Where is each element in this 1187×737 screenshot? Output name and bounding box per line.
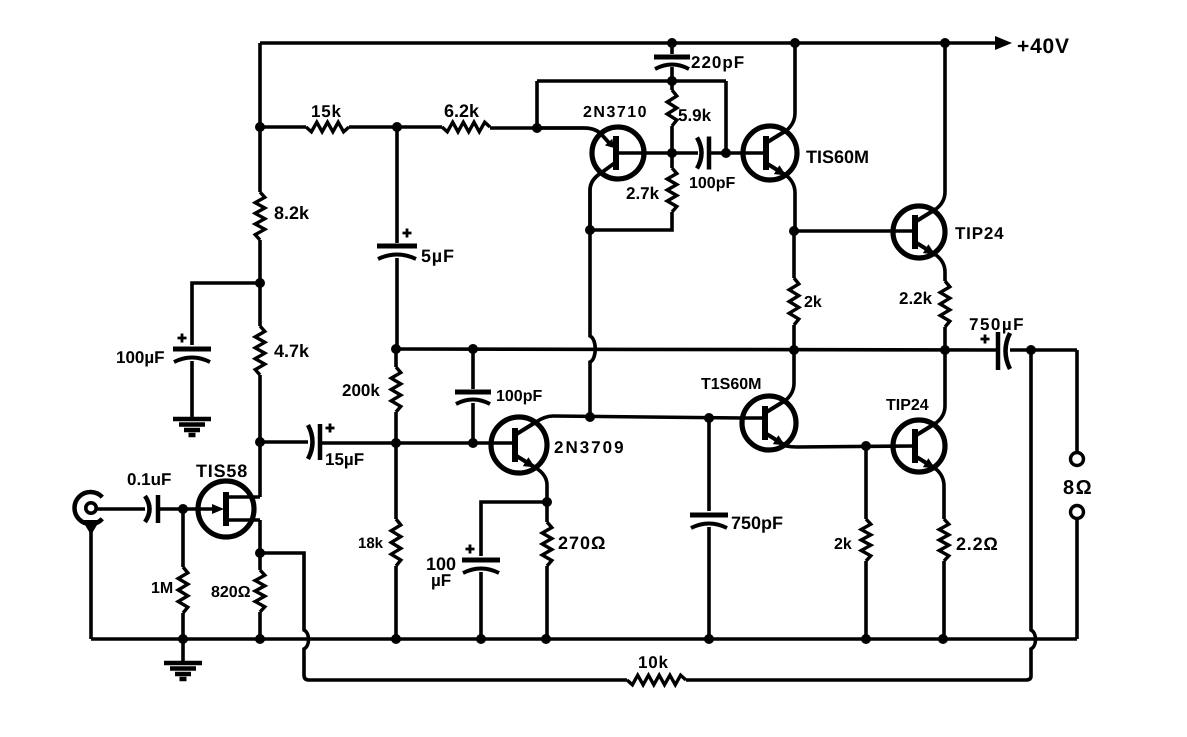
wire 270 bottom <box>545 566 549 639</box>
wire +40V top supply rail <box>260 41 1000 45</box>
resistor 18k <box>391 519 401 566</box>
resistor 4.7k <box>255 326 265 375</box>
wire ground rail <box>91 637 1077 641</box>
wire 100pF mid top <box>471 349 475 389</box>
wire TIS60M bottom base <box>742 416 765 420</box>
svg-text:750µF: 750µF <box>969 315 1025 334</box>
node 2.2ohm/ground rail <box>938 634 948 644</box>
wire TIP24 collector up <box>936 43 945 209</box>
wire 2k bottom end <box>864 561 868 639</box>
wire loop horizontal <box>537 79 726 83</box>
resistor 10k <box>627 675 686 685</box>
node 1M/ground rail <box>178 634 188 644</box>
plus 100uF left <box>178 334 187 343</box>
plus 750uF <box>981 335 990 344</box>
wire TIS58 drain up <box>258 442 262 497</box>
wire TIP24 bottom emitter <box>936 469 944 519</box>
svg-text:270Ω: 270Ω <box>558 533 606 553</box>
wire 5uF bottom <box>395 258 399 349</box>
transistor 2N3710 <box>592 127 644 179</box>
node source/820 <box>255 548 265 558</box>
node left rail row1 <box>255 122 265 132</box>
capacitor 100uF bottom <box>462 558 500 563</box>
svg-text:2.2Ω: 2.2Ω <box>956 534 999 554</box>
transistor TIS58 <box>198 481 254 537</box>
resistor 2.2ohm <box>939 519 949 561</box>
svg-text:15k: 15k <box>311 102 342 121</box>
svg-text:10k: 10k <box>638 653 669 672</box>
wire TIS58 source down <box>258 520 262 553</box>
wire row1 c <box>490 126 537 130</box>
wire 100pF right to base <box>709 151 766 155</box>
transistor TIP24 top <box>893 206 945 258</box>
node 750pF/ground rail <box>704 634 714 644</box>
wire 2k top <box>792 231 796 278</box>
wire to 100uF bottom <box>481 502 547 556</box>
node 100pF/base wire <box>468 438 478 448</box>
capacitor 750uF <box>996 332 1001 370</box>
transistor TIS60M bottom <box>742 396 796 450</box>
wire loop left leg <box>535 81 539 128</box>
capacitor 100pF mid <box>455 390 491 395</box>
resistor 2.7k <box>667 168 677 212</box>
terminal output top <box>1071 453 1084 466</box>
wire cap to gate <box>158 507 198 511</box>
wire 2N3710 collector <box>642 151 698 155</box>
wire 5.9k ends <box>670 81 674 153</box>
wire TIP24 emitter down <box>936 255 945 281</box>
svg-text:220pF: 220pF <box>691 53 745 72</box>
wire 270 top <box>545 502 549 522</box>
wire 100uF bottom to rail <box>479 572 483 639</box>
node 200k/base wire <box>391 438 401 448</box>
svg-text:TIP24: TIP24 <box>886 397 929 414</box>
node junction to 100uF <box>255 278 265 288</box>
wire to 100uF <box>192 283 260 345</box>
wire TIS60M bottom collector <box>786 350 794 400</box>
svg-text:100pF: 100pF <box>689 175 735 192</box>
transistor TIS60M top <box>743 126 797 180</box>
wire between 8.2k and 4.7k <box>258 240 262 326</box>
node 270/ground rail <box>541 634 551 644</box>
capacitor 750pF <box>690 513 728 518</box>
wire output down <box>1075 350 1079 452</box>
node drain/15uF <box>255 437 265 447</box>
wire 750pF bottom <box>707 527 711 639</box>
wire row1 b <box>349 125 442 129</box>
+40V arrow head <box>995 36 1012 50</box>
wire 1M top <box>181 509 185 567</box>
wire input to cap <box>96 507 145 511</box>
svg-text:15µF: 15µF <box>325 450 364 469</box>
wire 100pF mid bottom <box>471 403 475 443</box>
node 220pF loop junction <box>667 76 677 86</box>
capacitor 0.1uF <box>145 496 150 522</box>
resistor 2k bottom <box>861 519 871 561</box>
node 820/ground rail <box>255 634 265 644</box>
wire 2.7k top <box>670 153 674 168</box>
connector input jack <box>74 492 102 524</box>
wire 2N3709 collector <box>536 416 742 422</box>
node emitter/2.7k <box>585 225 595 235</box>
svg-text:5.9k: 5.9k <box>678 106 712 125</box>
svg-text:0.1uF: 0.1uF <box>127 470 171 489</box>
wire 18k top <box>394 443 398 519</box>
wire 220pF from rail <box>670 43 674 54</box>
wire 2.2k bottom <box>943 327 947 350</box>
wire 2.7k bottom to emitter <box>590 212 672 230</box>
wire drain to 15uF <box>260 440 308 444</box>
terminal output bottom <box>1071 506 1084 519</box>
wire 2k bottom top <box>864 446 868 519</box>
svg-text:750pF: 750pF <box>731 513 783 533</box>
svg-text:6.2k: 6.2k <box>444 101 480 121</box>
ground bottom <box>164 661 202 666</box>
wire left rail upper <box>258 43 262 192</box>
capacitor 100pF coupling <box>697 138 702 169</box>
node output rail 100pF <box>468 344 478 354</box>
svg-text:T1S60M: T1S60M <box>701 376 761 393</box>
resistor 200k <box>391 367 401 412</box>
svg-text:100pF: 100pF <box>496 388 542 405</box>
svg-text:2.7k: 2.7k <box>626 184 660 203</box>
wire TIS60M collector up <box>787 43 795 130</box>
wire input jack ground <box>89 527 93 639</box>
resistor 5.9k <box>667 90 677 126</box>
resistor 1M <box>178 567 188 613</box>
wire 2N3709 emitter <box>536 468 547 502</box>
wire TIP24 bottom collector <box>936 350 945 423</box>
node 2k/ground rail <box>861 634 871 644</box>
node 100uF/ground rail <box>476 634 486 644</box>
wire 15uF to base node <box>320 441 515 445</box>
wire 2k bottom <box>792 325 796 350</box>
wire 4.7k to drain node <box>258 375 262 442</box>
wire 750uF to output <box>1010 348 1077 352</box>
svg-text:TIS60M: TIS60M <box>806 147 869 167</box>
node feedback takeoff <box>1026 345 1036 355</box>
wire 1M bottom <box>181 613 185 639</box>
svg-text:TIP24: TIP24 <box>955 224 1004 243</box>
ground left <box>173 417 211 422</box>
wire feedback vertical right <box>686 350 1036 680</box>
resistor 15k <box>306 122 349 132</box>
svg-text:8Ω: 8Ω <box>1063 477 1093 499</box>
wire output return <box>1075 519 1079 639</box>
resistor 2.2k <box>940 281 950 327</box>
node emitter/270 <box>542 497 552 507</box>
node gate/1M <box>178 504 188 514</box>
svg-text:18k: 18k <box>358 535 384 552</box>
node output rail 2k <box>789 345 799 355</box>
wire 5uF top <box>395 127 399 243</box>
svg-text:2N3710: 2N3710 <box>583 104 648 121</box>
svg-text:820Ω: 820Ω <box>211 584 251 601</box>
capacitor 15uF <box>308 425 313 459</box>
plus 15uF <box>326 424 335 433</box>
wire 220pF to loop <box>670 67 674 81</box>
svg-text:100µF: 100µF <box>116 348 165 367</box>
wire 2.2ohm end <box>942 561 946 639</box>
node 2k top <box>789 226 799 236</box>
capacitor 5uF <box>377 244 417 249</box>
wire row1 a <box>260 125 306 129</box>
wire 100uF to ground <box>190 361 194 417</box>
resistor 8.2k <box>255 192 265 240</box>
wire 2N3710 lower lead <box>590 162 616 230</box>
wire 820 ends <box>258 553 262 639</box>
transistor 2N3709 <box>491 417 547 473</box>
wire 200k top <box>394 349 398 367</box>
wire TIS60M emitter down <box>787 176 795 231</box>
node row1 loop leg <box>532 123 542 133</box>
arrow 2N3710 emitter <box>605 139 614 148</box>
resistor 6.2k <box>442 122 490 132</box>
svg-text:2k: 2k <box>804 294 822 311</box>
node emitter chain/driver base wire <box>585 412 595 422</box>
resistor 820 <box>255 570 265 612</box>
svg-text:4.7k: 4.7k <box>274 341 310 361</box>
wire TIS60M bottom emitter <box>786 446 915 447</box>
wire output rail <box>396 349 996 350</box>
svg-text:+40V: +40V <box>1017 35 1070 58</box>
transistor TIP24 bottom <box>893 420 945 472</box>
node collector/5.9k <box>667 148 677 158</box>
plus 5uF <box>403 229 412 238</box>
wire driver base row <box>795 229 915 233</box>
svg-text:2.2k: 2.2k <box>899 289 933 308</box>
wire feedback horizontal left <box>260 553 627 680</box>
node output rail 200k <box>391 344 401 354</box>
wire 2N3710 base-emitter from row1 <box>537 128 611 145</box>
node 750pF/driver base wire <box>704 413 714 423</box>
wire ground stub bottom <box>181 639 185 661</box>
capacitor 220pF <box>654 55 690 60</box>
resistor 270 <box>542 522 552 566</box>
svg-text:2N3709: 2N3709 <box>554 438 626 457</box>
svg-text:TIS58: TIS58 <box>196 461 248 481</box>
node 18k/ground rail <box>391 634 401 644</box>
wire loop right leg <box>724 81 728 153</box>
node top rail / TIS60M collector <box>790 38 800 48</box>
node row1 5uF branch <box>392 122 402 132</box>
svg-text:µF: µF <box>431 571 451 590</box>
svg-text:2k: 2k <box>834 536 852 553</box>
capacitor 100uF left <box>173 347 211 352</box>
node top rail / 220pF <box>667 38 677 48</box>
node 2k bottom/emitter wire <box>861 441 871 451</box>
plus 100uF bottom <box>466 545 475 554</box>
wire 200k bottom <box>394 412 398 443</box>
resistor 2k top <box>789 278 799 325</box>
svg-text:200k: 200k <box>342 381 380 400</box>
svg-text:8.2k: 8.2k <box>274 203 310 223</box>
svg-text:5µF: 5µF <box>421 246 455 266</box>
node top rail / TIP24 collector <box>940 38 950 48</box>
wire 750pF top <box>707 418 711 511</box>
svg-text:1M: 1M <box>151 580 173 597</box>
wire 18k bottom <box>394 566 398 639</box>
node output rail 2.2k <box>940 345 950 355</box>
wire emitter chain down with jog <box>590 230 595 417</box>
node 100pF / loop leg <box>721 148 731 158</box>
